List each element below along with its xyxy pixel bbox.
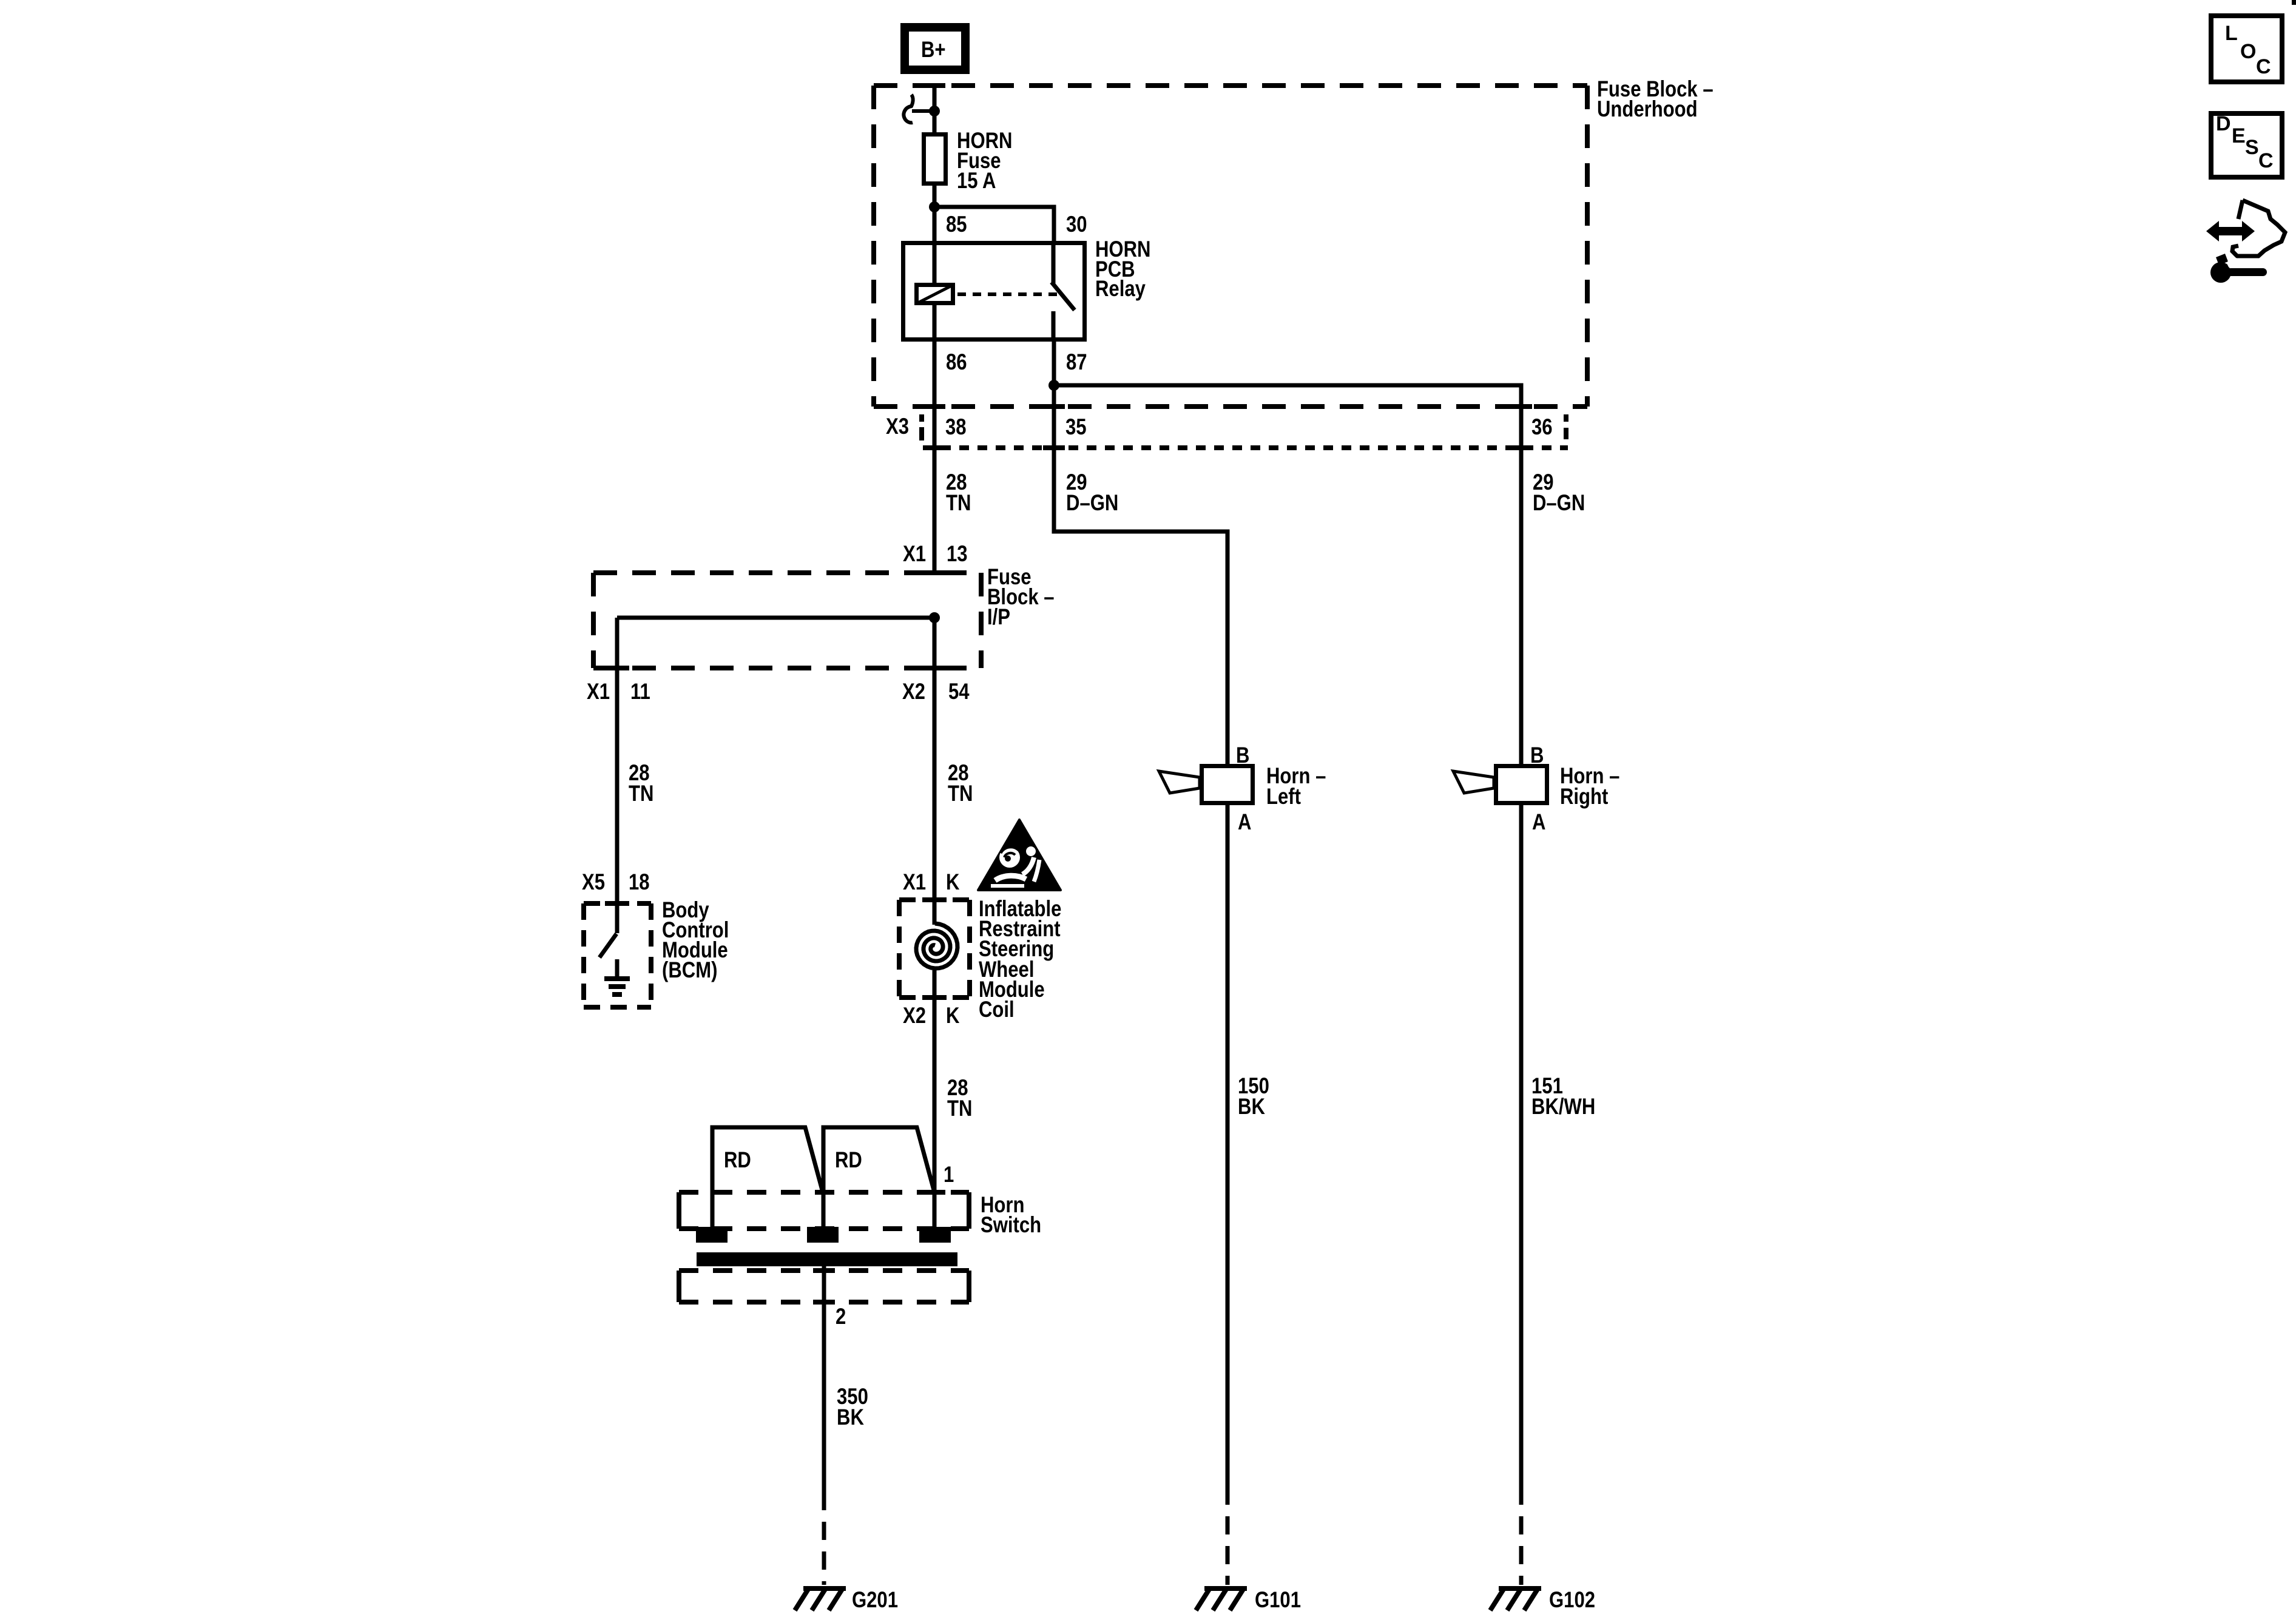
svg-text:X2: X2 <box>903 1004 926 1028</box>
Fuse Block I/P box <box>593 573 981 668</box>
relay label <box>1095 237 1150 302</box>
svg-text:Coil: Coil <box>979 998 1015 1022</box>
svg-text:15 A: 15 A <box>957 169 996 194</box>
X2 K labels <box>903 1004 960 1028</box>
X5 18 labels <box>582 870 650 895</box>
X1 11 labels <box>587 680 650 704</box>
svg-text:BK: BK <box>1238 1095 1265 1119</box>
svg-text:X1: X1 <box>903 542 926 567</box>
X3 connector row <box>919 407 1568 448</box>
svg-text:C: C <box>2258 149 2273 172</box>
Fuse Block - Underhood label <box>1597 77 1714 122</box>
switch pads <box>696 1227 951 1243</box>
svg-text:Switch: Switch <box>981 1213 1041 1238</box>
wire horn switch to G201 <box>822 1266 826 1510</box>
svg-text:TN: TN <box>629 781 653 806</box>
wire 29 D-GN label right <box>1533 470 1585 516</box>
svg-text:38: 38 <box>945 415 967 440</box>
SIR caution triangle <box>978 820 1061 890</box>
wire 28 TN label left <box>629 761 653 806</box>
svg-text:BK: BK <box>837 1405 864 1430</box>
svg-text:A: A <box>1238 810 1251 835</box>
wire 28 TN label mid <box>948 761 973 806</box>
SIR coil label <box>979 897 1061 1022</box>
wire I/P X2-54 down to SIR coil <box>933 618 937 925</box>
svg-text:35: 35 <box>1065 415 1087 440</box>
svg-text:D–GN: D–GN <box>1533 491 1585 516</box>
BCM label <box>662 898 729 983</box>
horn switch lower housing <box>679 1271 969 1302</box>
svg-text:30: 30 <box>1066 212 1087 237</box>
svg-text:1: 1 <box>944 1163 954 1187</box>
svg-text:87: 87 <box>1066 350 1087 375</box>
wire relay pin 87 down and jog to horn left <box>1054 342 1227 764</box>
svg-text:L: L <box>2225 22 2237 45</box>
Horn Switch label <box>981 1193 1041 1238</box>
X2 54 labels <box>902 680 970 704</box>
wire horn right to G102 <box>1519 805 1524 1505</box>
HORN PCB relay box <box>903 243 1085 340</box>
svg-text:K: K <box>946 1004 960 1028</box>
svg-text:X3: X3 <box>886 414 909 439</box>
contact bar <box>697 1252 957 1266</box>
junction inside I/P <box>929 612 940 623</box>
relay switch contact <box>1052 241 1075 342</box>
wire inside I/P to BCM branch <box>617 616 934 620</box>
wire B+ to fuse and relay coil pin 85 <box>933 84 937 283</box>
LOC icon box <box>2211 16 2282 82</box>
svg-text:E: E <box>2232 124 2245 147</box>
DESC icon box <box>2211 112 2282 177</box>
wire 28 TN label lower <box>947 1076 972 1121</box>
svg-text:TN: TN <box>947 1096 972 1121</box>
svg-text:BK/WH: BK/WH <box>1531 1095 1595 1119</box>
svg-text:11: 11 <box>630 680 650 704</box>
wire 151 BK/WH label <box>1531 1074 1595 1119</box>
fuse HORN 15 A <box>924 135 946 184</box>
svg-text:Left: Left <box>1266 785 1301 809</box>
connector service icon <box>2206 200 2285 283</box>
svg-text:85: 85 <box>946 212 967 237</box>
wire 28 TN label <box>946 470 971 516</box>
dashed wire to G101 <box>1226 1505 1230 1585</box>
svg-text:54: 54 <box>948 680 970 704</box>
svg-text:RD: RD <box>835 1148 862 1173</box>
SIR coil box <box>899 900 970 998</box>
clockspring coil spiral <box>916 923 957 968</box>
dashed wire to G201 <box>822 1510 826 1585</box>
horn left assembly <box>1159 766 1253 803</box>
svg-text:X2: X2 <box>902 680 925 704</box>
BCM switch and ground <box>599 903 630 994</box>
wire 150 BK label <box>1238 1074 1269 1119</box>
svg-text:X1: X1 <box>903 870 926 895</box>
horn switch upper housing <box>679 1192 969 1229</box>
Horn - Left label <box>1266 764 1326 809</box>
svg-text:A: A <box>1532 810 1545 835</box>
relay coil <box>917 285 953 303</box>
svg-text:G102: G102 <box>1549 1588 1595 1613</box>
wire horn left to G101 <box>1226 805 1230 1505</box>
svg-text:O: O <box>2240 40 2256 63</box>
svg-text:36: 36 <box>1531 415 1553 440</box>
svg-text:D: D <box>2216 112 2230 135</box>
wire to relay pin 30 <box>934 207 1054 241</box>
horn switch contact 1 <box>712 1127 823 1227</box>
svg-text:86: 86 <box>946 350 967 375</box>
svg-text:2: 2 <box>836 1305 846 1329</box>
battery feed B+ <box>905 27 965 70</box>
junction at clip <box>929 106 940 116</box>
svg-text:Relay: Relay <box>1095 277 1146 302</box>
svg-text:(BCM): (BCM) <box>662 958 717 983</box>
wire I/P to BCM <box>615 618 620 903</box>
X1 K labels <box>903 870 960 895</box>
horn switch contact 2 <box>823 1127 934 1227</box>
svg-text:C: C <box>2256 55 2271 78</box>
horn right assembly <box>1453 766 1547 803</box>
svg-text:Underhood: Underhood <box>1597 97 1698 122</box>
junction at pin 87 branch <box>1048 380 1059 391</box>
wire below spiral <box>933 970 937 1229</box>
relay contact dashed link <box>957 292 1057 296</box>
page corner mark <box>2292 0 2296 5</box>
svg-text:B: B <box>1530 743 1544 768</box>
wire 29 D-GN label <box>1066 470 1118 516</box>
svg-text:13: 13 <box>947 542 968 567</box>
battery clip symbol <box>903 95 934 123</box>
junction below fuse <box>929 201 940 212</box>
svg-text:G201: G201 <box>852 1588 898 1613</box>
Horn - Right label <box>1560 764 1619 809</box>
svg-text:D–GN: D–GN <box>1066 491 1118 516</box>
svg-text:I/P: I/P <box>987 605 1010 630</box>
fuse label <box>957 129 1012 194</box>
svg-text:X1: X1 <box>587 680 610 704</box>
svg-text:18: 18 <box>629 870 650 895</box>
BCM box <box>584 903 651 1007</box>
svg-text:Right: Right <box>1560 785 1608 809</box>
Fuse Block I/P label <box>987 565 1055 630</box>
svg-text:B+: B+ <box>921 38 946 62</box>
X1 13 labels <box>903 542 968 567</box>
svg-text:S: S <box>2245 136 2258 159</box>
dashed wire to G102 <box>1519 1505 1524 1585</box>
ground G102 <box>1490 1587 1541 1610</box>
Fuse Block - Underhood box <box>874 86 1587 407</box>
ground G201 <box>795 1587 846 1610</box>
ground G101 <box>1196 1587 1247 1610</box>
wire 350 BK label <box>837 1385 868 1430</box>
svg-text:RD: RD <box>724 1148 751 1173</box>
svg-text:X5: X5 <box>582 870 605 895</box>
svg-text:K: K <box>946 870 960 895</box>
wire branch to horn right <box>1054 385 1521 764</box>
wire relay pin 86 down to fuse block I/P <box>933 305 937 573</box>
svg-text:TN: TN <box>948 781 973 806</box>
svg-text:G101: G101 <box>1255 1588 1301 1613</box>
svg-text:B: B <box>1236 743 1249 768</box>
svg-text:TN: TN <box>946 491 971 516</box>
